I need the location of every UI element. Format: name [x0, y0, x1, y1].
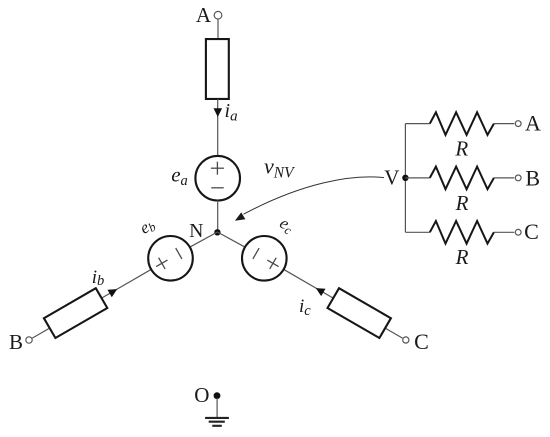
svg-text:C: C: [414, 329, 429, 354]
svg-text:V: V: [384, 165, 399, 189]
svg-text:R: R: [455, 245, 469, 269]
svg-text:ib: ib: [92, 267, 105, 289]
svg-text:ea: ea: [171, 163, 188, 190]
svg-text:N: N: [189, 221, 203, 242]
svg-text:ic: ic: [299, 296, 311, 319]
svg-text:ia: ia: [225, 100, 238, 124]
svg-text:A: A: [196, 3, 212, 27]
svg-text:B: B: [9, 330, 23, 354]
svg-text:R: R: [455, 191, 469, 215]
svg-text:O: O: [194, 383, 209, 407]
svg-text:C: C: [524, 219, 539, 244]
svg-text:A: A: [525, 111, 541, 136]
svg-text:B: B: [525, 166, 540, 191]
svg-text:R: R: [454, 137, 468, 161]
svg-text:vNV: vNV: [264, 154, 295, 182]
svg-text:ec: ec: [276, 213, 298, 238]
svg-text:eb: eb: [136, 214, 158, 238]
